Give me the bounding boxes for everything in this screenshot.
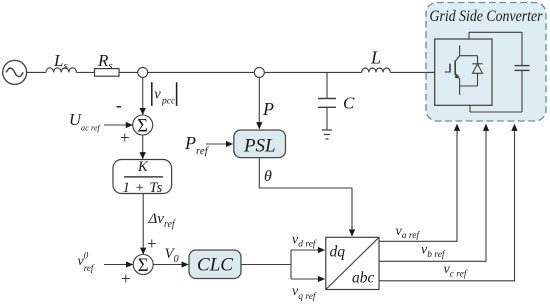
wire Uacref to sum1 — [104, 124, 132, 126]
svg-text:+: + — [147, 234, 157, 253]
resistor Rs — [95, 69, 120, 77]
wire node2 to L — [264, 71, 361, 73]
wire Pref to PSL — [206, 143, 232, 145]
block dq/abc — [326, 237, 379, 289]
svg-text:L: L — [370, 48, 381, 68]
svg-text:Σ: Σ — [137, 116, 148, 136]
wire L to converter — [390, 71, 435, 73]
wire vdref into dq block — [291, 249, 324, 251]
transfer block K/(1+Ts) — [113, 160, 172, 194]
split vertical — [290, 250, 292, 279]
diode D1 — [460, 56, 483, 86]
svg-text:C: C — [343, 94, 355, 113]
wire sum1 to K block — [142, 135, 144, 159]
svg-text:PSL: PSL — [243, 135, 276, 156]
converter dc bus bottom — [470, 70, 522, 112]
svg-text:+: + — [120, 128, 130, 147]
svg-text:v: v — [154, 86, 161, 102]
capacitor C — [318, 99, 336, 108]
converter inner box — [435, 39, 492, 105]
summing junction U1 — [133, 115, 153, 135]
wire node2 down to PSL (P) — [258, 77, 260, 128]
dc link capacitor — [515, 66, 530, 71]
svg-text:pcc: pcc — [161, 97, 176, 107]
svg-text:dq: dq — [330, 244, 346, 261]
svg-text:1 + Ts: 1 + Ts — [123, 180, 163, 196]
wire source to Ls — [27, 71, 46, 73]
wire K block to sum2 — [142, 194, 144, 255]
ac source G1 — [3, 60, 27, 84]
ground — [322, 130, 332, 139]
wire Rs to node1 — [119, 71, 138, 73]
node 2 — [254, 67, 264, 77]
wire Ls to Rs — [76, 71, 94, 73]
wire v_cref — [379, 125, 515, 281]
wire v_aref — [379, 125, 457, 242]
capacitor C branch wire — [326, 72, 328, 98]
summing junction U2 — [133, 255, 153, 275]
svg-text:K: K — [137, 159, 149, 175]
igbt Q1 — [445, 45, 460, 95]
wire v0ref to sum2 — [104, 264, 133, 266]
block PSL — [234, 130, 286, 158]
wire sum2 to CLC — [153, 264, 188, 266]
label |v_pcc| — [152, 82, 177, 106]
block CLC — [189, 250, 241, 279]
svg-text:θ: θ — [264, 168, 272, 185]
wire v_bref — [379, 125, 486, 262]
node 1 (pcc) — [138, 67, 148, 77]
svg-text:+: + — [121, 269, 131, 288]
wire theta: PSL down, right, down into dq — [259, 158, 352, 236]
inductor Ls — [46, 68, 76, 73]
svg-text:-: - — [116, 96, 122, 115]
svg-text:Σ: Σ — [138, 256, 149, 276]
wire C to ground — [326, 107, 328, 130]
svg-text:CLC: CLC — [197, 255, 233, 276]
svg-text:abc: abc — [352, 270, 375, 287]
wire CLC to split — [241, 264, 291, 266]
inductor L — [362, 68, 390, 72]
converter dc bus top — [469, 32, 522, 65]
Grid Side Converter dashed box — [426, 3, 546, 122]
wire node1 to node2 — [148, 71, 255, 73]
svg-text:P: P — [262, 99, 274, 119]
svg-text:Grid Side Converter: Grid Side Converter — [430, 8, 544, 25]
wire vqref into dq block — [291, 278, 324, 280]
wire node1 down to sum1 — [142, 77, 144, 114]
